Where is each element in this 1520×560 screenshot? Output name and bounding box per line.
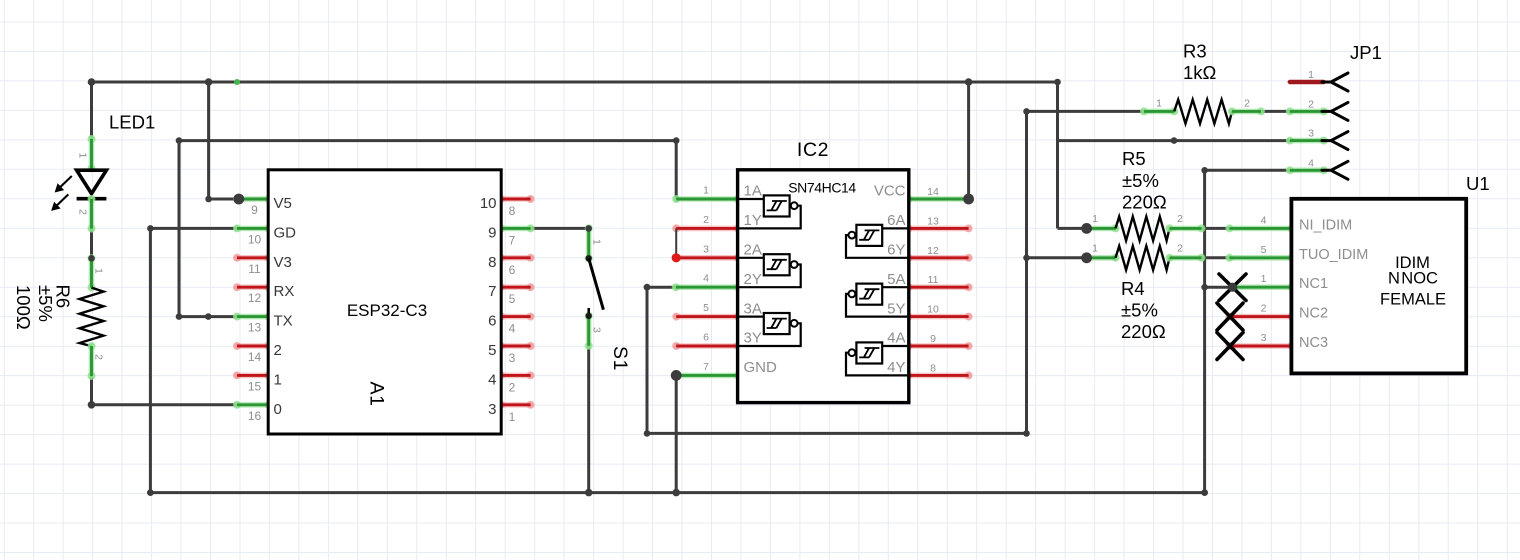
inverter IC2 left pin 5 (3A) leg — [676, 314, 737, 320]
svg-text:1: 1 — [703, 185, 709, 197]
inverter IC2 1Y-2A link wire — [675, 228, 677, 257]
svg-text:7: 7 — [703, 361, 709, 373]
node corner 2Y right — [1023, 430, 1030, 437]
node junction 2Y — [644, 284, 651, 291]
node corner R6/pin0 — [88, 401, 96, 409]
inverter IC2 right pin 12 (6Y) leg — [909, 255, 969, 261]
svg-text:6: 6 — [703, 332, 709, 344]
microcontroller A1 left pin 11 (V3) leg — [237, 255, 268, 261]
wire to R4 pin1 — [1027, 256, 1087, 259]
inverter IC2 body — [738, 170, 909, 403]
svg-text:4: 4 — [509, 322, 516, 336]
svg-text:4: 4 — [703, 273, 709, 285]
microcontroller A1 V5 pin connection dot — [233, 194, 244, 205]
svg-text:2: 2 — [509, 380, 516, 394]
svg-text:2Y: 2Y — [744, 271, 762, 288]
svg-text:NC1: NC1 — [1299, 276, 1328, 292]
wire S1 pin3 drop — [587, 346, 590, 493]
inverter IC2 right pin 13 (6A) leg — [909, 226, 969, 232]
wire corner bus to R5 — [1056, 82, 1059, 228]
op-amp gate U1 schmitt inverter (left column) — [738, 198, 764, 200]
junction top bus / VCC drop — [965, 78, 973, 86]
microcontroller A1 ESP32-C3 body — [268, 170, 501, 434]
svg-text:10: 10 — [248, 232, 262, 246]
svg-text:15: 15 — [248, 379, 262, 393]
wire JP1 pin4 riser — [1203, 170, 1206, 492]
connector U1 NC1 junction dot — [1228, 283, 1237, 292]
microcontroller A1 left pin 10 (GD) leg — [237, 226, 268, 232]
inverter IC2 left pin 1 (1A) leg — [676, 196, 737, 202]
LED LED1 cathode bar — [77, 197, 107, 201]
node corner 2Y bottom — [644, 430, 651, 437]
node corner 1A wire left — [176, 137, 183, 144]
op-amp gate U6 schmitt inverter (right column) — [882, 345, 909, 347]
op-amp gate U4 schmitt inverter (right column) — [882, 227, 909, 229]
node corner riser top — [1023, 108, 1030, 115]
svg-text:2: 2 — [1261, 303, 1267, 315]
wire JP1 pin4 horizontal — [1205, 169, 1290, 172]
svg-text:4: 4 — [1261, 214, 1267, 226]
svg-text:16: 16 — [248, 409, 262, 423]
svg-text:220Ω: 220Ω — [1121, 321, 1166, 342]
wire TX horizontal — [179, 315, 237, 318]
svg-text:3: 3 — [1261, 332, 1267, 344]
svg-text:5: 5 — [488, 342, 496, 359]
svg-text:GD: GD — [274, 224, 297, 241]
wire bottom ground bus — [150, 491, 1204, 494]
junction top bus / LED — [88, 78, 96, 86]
svg-text:3: 3 — [509, 351, 516, 365]
resistor R3 pin 2 leg — [1232, 109, 1261, 115]
junction riser / R4 — [1023, 254, 1030, 261]
svg-text:6: 6 — [488, 313, 496, 330]
svg-text:SN74HC14: SN74HC14 — [788, 180, 856, 196]
node corner JP1 pin4 — [1201, 167, 1208, 174]
svg-text:1: 1 — [77, 153, 89, 159]
svg-text:GND: GND — [744, 359, 778, 376]
svg-text:14: 14 — [927, 186, 939, 198]
svg-text:13: 13 — [927, 215, 939, 227]
node corner bottom-right — [1201, 489, 1208, 496]
microcontroller A1 right pin 6 (8) leg — [501, 255, 530, 261]
svg-text:1Y: 1Y — [744, 212, 762, 229]
LED LED1 triangle — [77, 170, 107, 193]
wire GND left drop — [149, 228, 152, 492]
node corner GD — [147, 225, 154, 232]
connector JP1 pin 3 leg — [1290, 138, 1324, 144]
svg-text:V5: V5 — [274, 195, 292, 212]
inverter IC2 VCC pin connection dot — [963, 194, 974, 205]
node bendpoint JP1 pin3 wire — [1171, 137, 1178, 144]
microcontroller A1 left pin 13 (TX) leg — [237, 314, 268, 320]
resistor R4 pin 2 leg — [1170, 255, 1202, 261]
svg-text:3: 3 — [591, 327, 603, 333]
wire GD horizontal — [150, 227, 237, 230]
svg-text:NI_IDIM: NI_IDIM — [1299, 217, 1352, 233]
resistor R5 pin 2 leg — [1170, 226, 1202, 232]
microcontroller A1 left pin 14 (2) leg — [237, 343, 268, 349]
inverter IC2 right pin 9 (4A) leg — [909, 343, 969, 349]
inverter IC2 left pin 3 (2A) leg — [676, 255, 737, 261]
junction riser / NC1 — [1201, 284, 1208, 291]
svg-text:5: 5 — [703, 302, 709, 314]
svg-text:9: 9 — [251, 203, 258, 217]
connector JP1 pin 2 leg — [1290, 109, 1324, 115]
microcontroller A1 right pin 2 (4) leg — [501, 373, 530, 379]
svg-text:FEMALE: FEMALE — [1380, 291, 1446, 309]
svg-text:6Y: 6Y — [887, 242, 905, 259]
wire R4 pin2 to U1 — [1202, 256, 1230, 259]
svg-text:11: 11 — [928, 274, 939, 286]
microcontroller A1 right pin 1 (3) leg — [501, 402, 530, 408]
svg-text:10: 10 — [927, 304, 939, 316]
inverter IC2 left pin 4 (2Y) leg — [676, 284, 738, 290]
node corner top bus — [1054, 79, 1061, 86]
wire TX to IC2 1A horizontal — [179, 139, 676, 142]
LED LED1 emission arrow a — [60, 176, 72, 188]
switch S1 pin 3 leg — [586, 316, 592, 346]
svg-text:2: 2 — [1177, 213, 1183, 225]
svg-text:1: 1 — [509, 410, 516, 424]
svg-text:7: 7 — [488, 283, 496, 300]
op-amp gate U3 schmitt inverter (left column) — [738, 316, 764, 318]
inverter IC2 right pin 11 (5A) leg — [909, 284, 969, 290]
LED LED1 pin 2 leg — [89, 199, 95, 229]
svg-text:12: 12 — [248, 291, 262, 305]
microcontroller A1 right pin 5 (7) leg — [501, 284, 530, 290]
connector JP1 pin 1 leg — [1290, 80, 1324, 84]
svg-text:N NOC: N NOC — [1388, 270, 1438, 288]
svg-text:9: 9 — [930, 333, 936, 345]
svg-text:1: 1 — [1261, 273, 1267, 285]
svg-text:1: 1 — [274, 371, 282, 388]
svg-text:5: 5 — [509, 292, 516, 306]
wire LED top segment — [90, 82, 93, 139]
svg-text:6: 6 — [509, 263, 516, 277]
svg-text:±5%: ±5% — [35, 285, 56, 322]
wire TX drop — [178, 141, 181, 317]
svg-text:2: 2 — [274, 342, 282, 359]
connector U1 NC1 no-connect X mark — [1219, 274, 1246, 301]
connector U1 pin 2 (NC2) leg — [1229, 314, 1291, 320]
svg-text:±5%: ±5% — [1121, 300, 1158, 321]
svg-text:ESP32-C3: ESP32-C3 — [347, 301, 427, 320]
svg-text:NC2: NC2 — [1299, 306, 1328, 322]
svg-text:U1: U1 — [1466, 173, 1490, 194]
resistor R5 pin 1 connection dot — [1081, 223, 1092, 234]
svg-text:1kΩ: 1kΩ — [1183, 62, 1217, 83]
wire 1A drop — [675, 141, 678, 199]
svg-text:A1: A1 — [366, 381, 388, 406]
svg-text:JP1: JP1 — [1350, 42, 1382, 63]
node bendpoint LED/R6 — [88, 255, 95, 262]
wire JP1 pin3 feed — [1058, 139, 1290, 142]
svg-text:LED1: LED1 — [109, 112, 155, 133]
svg-text:8: 8 — [488, 254, 496, 271]
wire ESP32 pin9 to S1 — [531, 227, 589, 230]
svg-text:12: 12 — [927, 245, 939, 257]
node corner 1A wire right — [673, 137, 680, 144]
svg-text:1: 1 — [1092, 243, 1098, 255]
inverter IC2 right pin 8 (4Y) leg — [909, 373, 969, 379]
svg-text:4: 4 — [1308, 157, 1314, 169]
svg-text:2: 2 — [1177, 243, 1183, 255]
svg-text:R4: R4 — [1121, 278, 1145, 299]
svg-text:1: 1 — [1308, 69, 1314, 81]
wire R5 pin2 to U1 — [1202, 227, 1230, 230]
svg-text:V3: V3 — [274, 254, 292, 271]
svg-text:8: 8 — [509, 204, 516, 218]
svg-text:2A: 2A — [744, 242, 762, 259]
wire R3 pin2 to JP1 pin2 — [1261, 110, 1290, 113]
inverter IC2 right pin 10 (5Y) leg — [909, 314, 969, 320]
microcontroller A1 right pin 8 (10) leg — [501, 196, 530, 202]
node bendpoint TX wire — [205, 313, 212, 320]
resistor R3 pin 1 leg — [1144, 109, 1174, 115]
wire 2Y horizontal stub — [647, 286, 676, 289]
svg-text:4A: 4A — [887, 330, 905, 347]
connector U1 pin 3 (NC3) leg — [1229, 343, 1291, 349]
wire top power bus — [92, 81, 1058, 84]
node corner S1 top — [585, 225, 592, 232]
inverter IC2 left pin 7 (GND) leg — [676, 373, 737, 379]
node red endpoint at 2A — [672, 253, 681, 262]
svg-text:3: 3 — [703, 243, 709, 255]
svg-text:7: 7 — [509, 233, 516, 247]
svg-text:2: 2 — [93, 354, 105, 360]
svg-text:0: 0 — [274, 401, 282, 418]
svg-text:3: 3 — [1308, 128, 1314, 140]
resistor R5 pin 1 leg — [1087, 226, 1116, 232]
svg-text:2: 2 — [703, 214, 709, 226]
switch S1 pin3 terminal — [587, 308, 590, 316]
node corner bottom-left — [147, 489, 154, 496]
junction bottom bus / S1 — [585, 489, 593, 497]
svg-text:220Ω: 220Ω — [1122, 192, 1167, 213]
connector U1 pin 4 (NI_IDIM) leg — [1229, 226, 1291, 232]
resistor R4 pin 1 connection dot — [1081, 252, 1092, 263]
svg-text:2: 2 — [1244, 98, 1250, 110]
node V5 corner — [205, 196, 212, 203]
inverter IC2 right pin 14 (VCC) leg — [909, 196, 969, 202]
resistor R4 pin 1 leg — [1087, 255, 1116, 261]
svg-text:VCC: VCC — [874, 183, 906, 200]
svg-text:3: 3 — [488, 401, 496, 418]
microcontroller A1 right pin 4 (6) leg — [501, 314, 530, 320]
wire IC2 GND drop — [675, 375, 678, 492]
resistor R6 pin 1 leg — [89, 258, 95, 287]
inverter IC2 GND pin connection dot — [671, 370, 682, 381]
connector U1 NC3 no-connect X mark — [1217, 333, 1243, 360]
resistor R4 zigzag body — [1116, 246, 1170, 270]
microcontroller A1 left pin 9 (V5) leg — [237, 196, 268, 202]
connector JP1 pin 4 leg — [1290, 168, 1324, 174]
svg-text:S1: S1 — [609, 346, 631, 371]
connector U1 pin 1 (NC1) leg — [1233, 284, 1292, 290]
svg-text:4Y: 4Y — [887, 359, 905, 376]
LED LED1 pin 1 leg — [89, 139, 95, 169]
microcontroller A1 left pin 15 (1) leg — [237, 373, 268, 379]
wire pin0 horizontal — [92, 403, 238, 406]
microcontroller A1 right pin 3 (5) leg — [501, 343, 530, 349]
connector JP1 pin 2 socket arrow — [1322, 102, 1348, 120]
wire 2Y bottom horizontal — [647, 432, 1027, 435]
svg-text:8: 8 — [930, 362, 936, 374]
inverter IC2 left pin 6 (3Y) leg — [676, 343, 737, 349]
connector U1 NC2 no-connect X mark — [1217, 303, 1243, 330]
microcontroller A1 right pin 7 (9) leg — [501, 226, 530, 232]
op-amp gate U2 schmitt inverter (left column) — [738, 257, 764, 259]
connector JP1 pin 4 socket arrow — [1322, 161, 1348, 179]
switch S1 lever — [589, 258, 604, 309]
wire LED to R6 segment — [90, 229, 93, 259]
wire 2Y riser to R3/R4 — [1025, 111, 1028, 433]
svg-text:4: 4 — [488, 371, 496, 388]
svg-text:1A: 1A — [744, 183, 762, 200]
wire 2Y drop — [646, 287, 649, 433]
svg-text:TUO_IDIM: TUO_IDIM — [1299, 247, 1368, 263]
svg-text:5: 5 — [1261, 244, 1267, 256]
junction top bus / V5 drop — [205, 78, 213, 86]
wire V5 drop — [207, 82, 210, 199]
node corner TX — [176, 313, 183, 320]
resistor R6 pin 2 leg — [89, 346, 95, 376]
svg-text:1: 1 — [93, 268, 105, 274]
svg-text:11: 11 — [248, 262, 261, 276]
inverter IC2 left pin 2 (1Y) leg — [676, 226, 737, 232]
svg-text:3A: 3A — [744, 300, 762, 317]
svg-text:R5: R5 — [1122, 148, 1146, 169]
connector U1 MIDI CONN FEMALE body — [1291, 199, 1466, 374]
svg-text:1: 1 — [591, 239, 603, 245]
svg-text:6A: 6A — [887, 212, 905, 229]
connector U1 pin 5 (TUO_IDIM) leg — [1229, 255, 1291, 261]
svg-text:NC3: NC3 — [1299, 335, 1328, 351]
op-amp gate U5 schmitt inverter (right column) — [882, 286, 909, 288]
wire to R3 pin1 — [1027, 110, 1145, 113]
svg-text:IC2: IC2 — [797, 139, 829, 161]
junction bottom bus / IC2 GND — [672, 489, 680, 497]
svg-text:13: 13 — [248, 321, 262, 335]
switch S1 pin1 terminal — [586, 255, 592, 261]
svg-text:TX: TX — [274, 313, 293, 330]
svg-text:2: 2 — [77, 209, 89, 215]
resistor R3 zigzag body — [1174, 100, 1232, 124]
svg-text:1: 1 — [1156, 98, 1162, 110]
svg-text:5A: 5A — [887, 271, 905, 288]
svg-text:10: 10 — [480, 195, 497, 212]
microcontroller A1 left pin 16 (0) leg — [237, 402, 268, 408]
svg-text:1: 1 — [1092, 213, 1098, 225]
svg-text:2: 2 — [1308, 98, 1314, 110]
connector JP1 pin 3 socket arrow — [1322, 132, 1348, 150]
svg-text:±5%: ±5% — [1122, 170, 1159, 191]
resistor R6 zigzag body — [80, 288, 104, 347]
svg-text:14: 14 — [248, 350, 262, 364]
svg-text:9: 9 — [488, 224, 496, 241]
wire VCC drop — [967, 82, 970, 199]
wire NC1 horizontal — [1205, 286, 1233, 289]
svg-text:100Ω: 100Ω — [13, 285, 34, 330]
resistor R5 zigzag body — [1116, 217, 1170, 241]
microcontroller A1 left pin 12 (RX) leg — [237, 284, 268, 290]
node green bendpoint on top bus — [234, 79, 240, 85]
svg-text:R3: R3 — [1183, 41, 1207, 62]
LED LED1 emission arrow b — [56, 194, 68, 206]
svg-text:RX: RX — [274, 283, 295, 300]
svg-text:3Y: 3Y — [744, 330, 762, 347]
wire R6 bottom segment — [90, 376, 93, 405]
switch S1 pin 1 leg — [586, 228, 592, 258]
connector JP1 pin 1 socket arrow — [1322, 73, 1348, 91]
svg-text:5Y: 5Y — [887, 300, 905, 317]
